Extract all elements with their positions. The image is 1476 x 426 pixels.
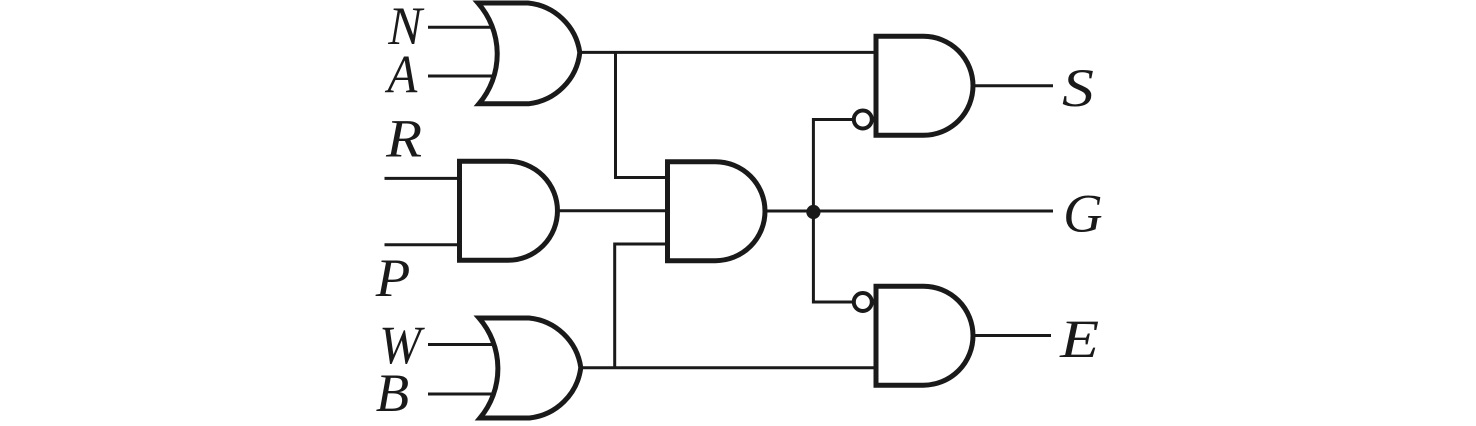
and-gate AND-E (output E) [876,286,973,385]
wire AND2 output to G [765,210,1053,213]
wire input B [428,393,494,396]
svg-text:G: G [1063,184,1103,244]
or-gate OR1 (inputs N,A) [478,3,580,104]
junction dot on node G [806,205,820,219]
wire AND-E output to E [973,334,1051,337]
wire junction down to AND-E inverted input [813,211,853,302]
wire branch down from OR1 output [616,52,669,177]
svg-text:E: E [1059,309,1099,369]
wire input A [428,75,493,78]
wire AND1 output to AND2 middle input [558,209,669,212]
wire AND-S output to S [973,84,1053,87]
inverter bubble on AND-S lower input [854,111,872,129]
svg-text:B: B [376,363,409,423]
wire input P [385,243,463,246]
wire branch up from OR2 output [615,244,668,368]
wire OR1 output to AND-S top input [580,51,876,54]
wire junction up to AND-S inverted input [813,120,853,212]
svg-text:R: R [385,108,422,168]
wire OR2 output to AND-E bottom input [581,366,876,369]
wire input W [428,343,494,346]
svg-text:S: S [1062,58,1094,118]
or-gate OR2 (inputs W,B) [479,318,581,418]
and-gate AND2 (center, 3 inputs) [668,162,766,261]
and-gate AND1 (inputs R,P) [460,161,558,260]
wire input N [428,26,493,29]
and-gate AND-S (output S) [876,36,973,135]
wire input R [385,177,463,180]
svg-text:A: A [385,45,418,105]
inverter bubble on AND-E upper input [854,293,872,311]
svg-text:P: P [375,248,411,308]
